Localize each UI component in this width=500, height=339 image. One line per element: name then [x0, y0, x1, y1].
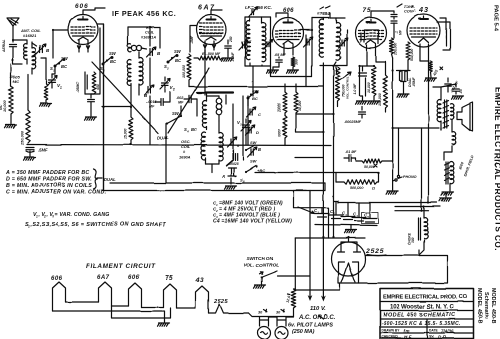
switch S3 [100, 51, 117, 73]
wire grid stopper [305, 35, 307, 87]
wire 43 plate loop [437, 18, 450, 50]
ground 10000 [368, 96, 380, 104]
speaker [457, 102, 473, 131]
wire bus 2525 feed [295, 237, 365, 239]
wire 6A7 topcap [211, 10, 222, 15]
cap bank C3 [341, 203, 355, 221]
variable cap V1 [47, 74, 62, 90]
ground dual cap [397, 82, 409, 98]
svg-text:/0000: /0000 [278, 129, 282, 138]
ground 606 cathode [85, 117, 97, 120]
wire choke join [418, 250, 420, 256]
tube 43 [407, 14, 440, 47]
svg-text:BC: BC [61, 64, 68, 69]
svg-text:BC: BC [191, 127, 198, 132]
svg-text:250,000: 250,000 [20, 130, 25, 146]
cap list C3 [213, 213, 280, 220]
filament 606b [129, 283, 142, 307]
notes V gang [33, 212, 110, 219]
volume control [336, 67, 352, 107]
dual capacitor .05 [400, 71, 417, 88]
svg-text:2525: 2525 [365, 248, 384, 255]
svg-text:7/4/36: 7/4/36 [441, 329, 454, 334]
svg-text:150,000: 150,000 [378, 93, 382, 106]
filament ground [158, 311, 170, 326]
output transformer primary [437, 100, 441, 130]
ground phono [386, 180, 398, 194]
resistor bias [44, 84, 48, 100]
svg-text:43: 43 [195, 277, 204, 284]
svg-text:Ω: Ω [371, 187, 375, 191]
wire coil to ground [41, 58, 46, 84]
svg-text:20000: 20000 [278, 103, 282, 113]
antenna label AERIAL [2, 39, 6, 53]
resistor 10000b [278, 113, 288, 146]
wire cap01 line [295, 157, 323, 159]
coil osc grid [203, 96, 207, 130]
resistor 50000 ac [356, 159, 393, 169]
trimmer B antenna [32, 43, 50, 57]
wire 606 plate down [97, 24, 104, 191]
label OSC COIL 1690A [179, 139, 191, 160]
cap bank C2 [329, 201, 343, 219]
svg-text:15,000: 15,000 [124, 129, 128, 139]
svg-text:SW: SW [61, 56, 69, 61]
capacitor .00025b [344, 107, 366, 125]
svg-text:100,000: 100,000 [182, 65, 186, 78]
tube 6A7 pins [203, 41, 215, 50]
svg-text:#16911A: #16911A [141, 36, 156, 40]
svg-text:540,000: 540,000 [410, 49, 414, 61]
resistor 300 cathode [291, 57, 298, 67]
tube 606 first pins [77, 40, 89, 52]
label AC DC [298, 315, 336, 321]
cap list arrow [298, 207, 315, 214]
svg-text:BC: BC [110, 59, 117, 64]
capacitor .1 43grid [391, 21, 403, 38]
margin MODEL right [490, 288, 496, 324]
capacitor cathode 606 [76, 72, 87, 92]
svg-text:.05 MF: .05 MF [274, 53, 286, 57]
filament 2525 label [213, 299, 229, 305]
wire bus G [271, 66, 312, 77]
wire 1.0MF frame [360, 66, 366, 96]
svg-text:10,000: 10,000 [3, 99, 7, 112]
svg-text:B: B [258, 147, 261, 152]
svg-text:FILAMENT CIRCUIT: FILAMENT CIRCUIT [86, 263, 156, 270]
wire vertical x398 [398, 128, 400, 175]
ground 606b right [287, 67, 299, 73]
margin MODEL left [476, 288, 482, 324]
filament link 4 [142, 306, 164, 308]
svg-text:6A7: 6A7 [97, 275, 110, 281]
filament 6A7 label [97, 275, 110, 281]
ift2 trimmer [339, 38, 348, 48]
svg-text:C4 =16MF 140 VOLT (YELLOW): C4 =16MF 140 VOLT (YELLOW) [213, 219, 292, 225]
capacitor .00025 osc [228, 154, 238, 166]
label 606 second [283, 8, 295, 14]
svg-text:DUAL: DUAL [104, 177, 116, 182]
svg-text:2: 2 [172, 88, 175, 92]
svg-text:10,000: 10,000 [367, 82, 371, 93]
svg-text:MC: MC [13, 79, 19, 84]
resistor cathode 606 [92, 72, 100, 94]
svg-text:CONT.: CONT. [404, 9, 416, 14]
wire choke bottom [419, 240, 424, 255]
svg-text:I.F.= 456 KC.: I.F.= 456 KC. [245, 5, 272, 10]
wire vertical x310 [277, 191, 310, 277]
resistor 250000 43grid [390, 38, 398, 58]
svg-text:.01 MF: .01 MF [345, 150, 357, 154]
tube 2525 pins [339, 272, 359, 283]
tube 75 [356, 18, 387, 49]
label IF 456 [245, 5, 272, 10]
resistor 10000 antenna [0, 64, 13, 114]
wire v2 down [130, 84, 132, 106]
wire bus B [102, 106, 131, 108]
wire cap01 right [355, 158, 357, 161]
wire bus power [334, 201, 437, 203]
svg-text:A.C. OR D.C.: A.C. OR D.C. [298, 315, 336, 321]
svg-text:IF PEAK 456 KC.: IF PEAK 456 KC. [112, 9, 176, 18]
switch S6 [240, 159, 265, 184]
wire bus F [189, 80, 323, 87]
label .1MF 6A7 [190, 35, 194, 44]
pilot lamp 2 [275, 309, 288, 339]
trimmer B rf upper [141, 47, 161, 57]
label tone cont [397, 4, 416, 14]
filament 606b label [128, 275, 140, 281]
voice coil [444, 120, 456, 160]
svg-text:75: 75 [363, 7, 372, 14]
ground power right [440, 193, 452, 201]
wire vertical x323 [322, 70, 324, 238]
switch S5 [247, 88, 260, 106]
label filament circuit [86, 263, 156, 270]
svg-text:300: 300 [411, 237, 415, 243]
tube 606 second [273, 18, 304, 49]
variable cap V2 [160, 77, 175, 92]
pilot lamp 1 [258, 309, 271, 339]
svg-text:EMPIRE ELECTRICAL PRODUCTS CO.: EMPIRE ELECTRICAL PRODUCTS CO. [493, 87, 500, 251]
wire bus C [255, 172, 380, 174]
svg-text:SW: SW [174, 49, 182, 54]
wire output top [433, 84, 456, 100]
cap list C2 [213, 207, 275, 214]
svg-text:MODEL 450-B: MODEL 450-B [490, 288, 496, 324]
switch S2 [164, 49, 182, 71]
svg-text:.5MF: .5MF [38, 147, 48, 152]
svg-text:H F: H F [404, 335, 412, 339]
wire rf top bus [128, 27, 160, 48]
wire resistor junction [296, 113, 334, 115]
filament link 1 [66, 301, 99, 303]
ac lead 2 [321, 237, 326, 302]
wire 75 top [371, 11, 394, 18]
switch S5b [245, 140, 258, 151]
ift1 trimmer top [249, 7, 258, 17]
svg-text:EH: EH [429, 335, 434, 339]
label DUAL dial [157, 135, 169, 140]
label S4 BC [184, 127, 198, 134]
ground field coil [442, 184, 454, 195]
wire left column [243, 96, 248, 160]
svg-text:ƒm: ƒm [403, 329, 410, 334]
svg-text:A: A [221, 174, 225, 179]
svg-text:VOL. CONTROL: VOL. CONTROL [243, 263, 279, 269]
label 250MA [292, 329, 315, 335]
tube 6A7 [196, 15, 226, 45]
tube 606 first [68, 15, 98, 45]
ground 1.0MF [356, 96, 368, 104]
trimmer osc B2 [248, 147, 262, 157]
svg-text:.002: .002 [176, 96, 184, 100]
filament 43 label [195, 277, 204, 284]
label 1.0 MF [353, 83, 357, 95]
svg-text:500,000: 500,000 [350, 186, 363, 190]
svg-text:4: 4 [186, 130, 189, 134]
capacitor output .05 [453, 84, 463, 94]
ground output cap [452, 96, 464, 99]
svg-text:CHOKE: CHOKE [408, 232, 412, 245]
wire vertical x331 [332, 66, 334, 238]
ground 606b left [267, 67, 280, 73]
svg-text:VOL. CONTROL: VOL. CONTROL [346, 76, 350, 99]
wire 606 grid left [52, 29, 68, 58]
output transformer secondary [451, 104, 454, 120]
svg-text:110 V.: 110 V. [310, 307, 326, 313]
svg-text:BC: BC [175, 58, 182, 63]
wire 606 screen [91, 28, 100, 94]
wire V3 to bus [246, 96, 248, 145]
wire b plus loop [339, 256, 448, 284]
svg-text:1: 1 [60, 86, 62, 90]
coil antenna secondary [32, 42, 36, 74]
title box [380, 289, 474, 339]
wire osc coil bottoms [226, 136, 233, 166]
wire vertical x421 [421, 128, 423, 211]
lamp caps [260, 317, 287, 326]
svg-text:MF: MF [178, 101, 184, 105]
wire bus A [27, 145, 331, 146]
wire 6A7 left [190, 26, 196, 52]
svg-text:DATE: DATE [429, 329, 439, 333]
svg-text:.1MF: .1MF [190, 35, 194, 44]
svg-text:.05: .05 [459, 89, 463, 94]
resistor 50000 under 6A7 [194, 50, 222, 60]
label 6A7 [198, 5, 216, 12]
svg-text:DUAL: DUAL [157, 135, 169, 140]
label 75 [363, 7, 372, 14]
svg-text:2525: 2525 [213, 299, 229, 305]
trimmer 606b plate [304, 37, 313, 47]
wire bus E [103, 190, 326, 192]
filament 75 [164, 284, 177, 308]
resistor 540000 [406, 42, 414, 71]
switch S4 [166, 111, 182, 125]
resistor 12.6 line [286, 289, 296, 317]
svg-text:B = MIN. ADJUSTORS IN COILS: B = MIN. ADJUSTORS IN COILS [6, 183, 92, 189]
label speaker field [458, 155, 475, 178]
svg-text:250,000: 250,000 [394, 43, 398, 56]
padder A [221, 168, 236, 179]
svg-text:-500-1525 KC & 15.5- 5.35MC.: -500-1525 KC & 15.5- 5.35MC. [382, 321, 461, 327]
notes D [6, 177, 92, 183]
wire cathode 606 bus [85, 89, 94, 98]
dial cord left [92, 62, 158, 133]
coil rf secondary right [139, 52, 143, 95]
filament 43 [196, 286, 209, 313]
cap list C1 [213, 201, 283, 208]
svg-text:#16921: #16921 [23, 33, 37, 38]
svg-text:#2884: #2884 [317, 11, 330, 16]
margin PAGE 5-4 [493, 5, 499, 32]
ift2 frame right [320, 30, 347, 66]
svg-text:1690A: 1690A [179, 155, 191, 160]
capacitor .002 osc [176, 95, 197, 104]
field coil [445, 162, 454, 184]
filament 2525 bump [209, 304, 249, 313]
resistor 250000 AVC [20, 74, 31, 146]
filament to lamps [249, 313, 294, 317]
filament link 2 [53, 310, 165, 312]
wire dual tie [392, 58, 411, 72]
capacitor antenna series [10, 45, 17, 58]
ift2 primary [319, 18, 323, 70]
svg-text:BC: BC [252, 96, 258, 101]
svg-text:.05MF: .05MF [231, 51, 235, 62]
label .05MF b [274, 53, 286, 57]
svg-text:Schematic: Schematic [483, 292, 489, 319]
wire osc vertical a [197, 50, 205, 116]
label switch on [243, 256, 279, 269]
capacitor cathode 606b [276, 57, 282, 67]
tube 606b pins [284, 44, 293, 55]
label RF coil [141, 26, 156, 40]
cap bank common [315, 225, 377, 226]
resistor 425 bias [420, 47, 443, 77]
svg-text:SWITCH ON: SWITCH ON [246, 256, 274, 262]
svg-text:606: 606 [75, 3, 89, 10]
trimmer D mid [246, 125, 260, 135]
resistor 10000 75 cath [367, 66, 376, 96]
svg-text:EMPIRE ELECTRICAL PROD. CO: EMPIRE ELECTRICAL PROD. CO [383, 295, 468, 301]
svg-text:2: 2 [166, 67, 169, 71]
wire rf section verticals [149, 26, 151, 145]
capacitor screen bypass [88, 100, 95, 117]
ground .5MF [24, 157, 36, 160]
capacitor .003 [445, 78, 460, 94]
tube 2525 [332, 242, 366, 282]
wire 2525 heater top [347, 236, 349, 241]
ift1 secondary [262, 17, 266, 66]
svg-text:300: 300 [295, 59, 299, 65]
wire choke top [395, 205, 440, 218]
coil osc sec2 [219, 121, 223, 164]
svg-text:D = 650 MMF PADDER FOR SW.: D = 650 MMF PADDER FOR SW. [6, 177, 92, 183]
resistor 500000 diode [336, 173, 379, 191]
wire bus power2 [395, 210, 429, 212]
ground osc padder [225, 178, 237, 189]
wire vertical x102 [102, 24, 104, 191]
filament link 5 [177, 307, 196, 309]
svg-text:.05MC: .05MC [76, 81, 80, 92]
ground 6A7 cath [222, 51, 236, 62]
svg-text:MODEL 450-B: MODEL 450-B [476, 288, 482, 324]
ground 425 [425, 72, 437, 81]
notes brace [94, 169, 98, 189]
wire ift1 down [252, 66, 254, 96]
svg-text:A = 350 MMF PADDER FOR BC: A = 350 MMF PADDER FOR BC [5, 170, 90, 176]
svg-text:606: 606 [51, 276, 63, 282]
notes switches [25, 222, 166, 229]
label .0005 MC [10, 74, 21, 84]
svg-text:75: 75 [165, 275, 173, 282]
svg-text:102 Wooster St. N. Y. C: 102 Wooster St. N. Y. C [390, 304, 455, 311]
svg-text:SW: SW [172, 111, 180, 116]
svg-text:1.0 MF: 1.0 MF [353, 83, 357, 95]
label 2525 [365, 248, 386, 256]
wire vertical x392 [392, 70, 394, 181]
label 2884 [317, 6, 330, 16]
svg-text:AERIAL: AERIAL [2, 39, 6, 53]
svg-text:C = MIN. ADJUSTER ON VAR. CON: C = MIN. ADJUSTER ON VAR. COND. [6, 190, 107, 196]
svg-text:DRAWN BY: DRAWN BY [382, 329, 401, 333]
filament link 3 [112, 305, 129, 307]
svg-text:.05MF: .05MF [412, 76, 416, 87]
coil osc plate [216, 96, 222, 121]
svg-text:,S2,S3,S4,S5, S6 = SWITCHES ON: ,S2,S3,S4,S5, S6 = SWITCHES ON GND SHAFT [30, 222, 167, 228]
wire S4 pole [165, 124, 167, 184]
wire osc frame bottom [206, 164, 220, 173]
ground coil secondary [40, 100, 52, 106]
ac lead 1 [308, 276, 313, 302]
svg-text:C: C [258, 112, 261, 117]
capacitor 1.0MF [359, 66, 367, 76]
filament 606a label [51, 276, 63, 282]
label 43 [418, 5, 429, 14]
resistor 100000 osc grid [182, 54, 191, 80]
margin EMPIRE [493, 87, 500, 251]
notes C [6, 190, 107, 196]
filament 6A7 [99, 282, 112, 306]
svg-text:4: 4 [355, 214, 358, 218]
cap bank C5 [362, 203, 379, 224]
tube 43 pins [420, 44, 429, 96]
variable cap V3 [237, 119, 251, 133]
coil rf secondary left [127, 60, 131, 86]
wire 606 grid top [83, 8, 105, 15]
capacitor .0025 [146, 92, 170, 109]
svg-text:MODEL 450 SCHEMATIC: MODEL 450 SCHEMATIC [383, 313, 456, 319]
coil antenna primary [12, 39, 27, 64]
notes B [6, 183, 92, 189]
capacitor .5MF AVC [26, 147, 48, 156]
tube 75 pins [367, 45, 376, 56]
label pilot lamps [288, 323, 333, 329]
svg-text:PHONO: PHONO [403, 175, 417, 179]
choke 300 ohm [408, 218, 428, 245]
wire link 207 [294, 191, 329, 239]
label ANT COIL 16921 [20, 28, 41, 38]
filament 606a [53, 282, 66, 311]
trimmer B rf lower [144, 85, 154, 98]
wire vertical x428 [427, 96, 429, 204]
label PHONO [398, 175, 417, 179]
switch S1 [50, 56, 69, 74]
trimmer osc 6 [228, 137, 241, 148]
svg-text:= VAR. COND. GANG: = VAR. COND. GANG [55, 212, 110, 218]
